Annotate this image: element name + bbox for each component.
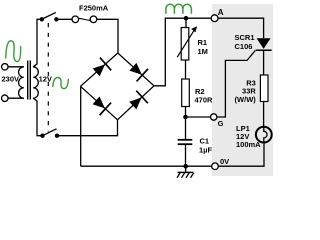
wire switch S1a to fuse: [56, 18, 72, 20]
wire secondary top riser: [33, 19, 40, 67]
svg-text:C1: C1: [200, 137, 210, 146]
switch S1a left contact: [40, 17, 44, 21]
svg-text:C106: C106: [235, 42, 253, 51]
fuse FS1 left cap: [72, 16, 79, 23]
bridge rectifier edge top-left: [81, 53, 118, 86]
capacitor C1 top plate: [178, 139, 193, 141]
svg-text:(W/W): (W/W): [235, 95, 257, 104]
svg-text:F250mA: F250mA: [79, 4, 109, 13]
wire switch S1b to bridge bottom vertex: [57, 120, 118, 136]
terminal: 230V neutral input: [2, 95, 9, 102]
label 100mA: [236, 140, 261, 149]
phase-control waveform symbol (green arches): [166, 4, 192, 14]
svg-text:12V: 12V: [39, 75, 52, 84]
svg-text:R1: R1: [198, 38, 208, 47]
switch S1a right contact: [54, 17, 58, 21]
wire R2 bottom to C1: [185, 107, 187, 140]
node G terminal circle: [211, 114, 217, 120]
svg-text:1µF: 1µF: [199, 146, 212, 155]
12V secondary sine symbol: [53, 77, 69, 88]
label (W/W): [235, 95, 257, 104]
svg-text:100mA: 100mA: [236, 140, 261, 149]
diode D1 (left to top): [91, 58, 112, 79]
bridge rectifier edge bottom-left: [81, 86, 118, 120]
label 33R: [242, 87, 256, 96]
gray panel (load section background): [212, 4, 273, 176]
label 12V: [39, 75, 52, 84]
lamp LP1 symbol: [256, 127, 272, 143]
switch link dashed line: [47, 23, 49, 132]
wire bridge positive output riser: [154, 18, 212, 86]
svg-text:G: G: [218, 119, 224, 128]
label SCR1: [235, 33, 255, 42]
svg-text:SCR1: SCR1: [235, 33, 255, 42]
wire R1 bottom to R2 top: [185, 60, 187, 79]
capacitor C1 bottom plate: [178, 143, 193, 145]
resistor R3 body: [260, 75, 268, 102]
label G: [218, 119, 224, 128]
transformer T1 core: [28, 61, 31, 100]
wire node G to SCR gate: [217, 51, 255, 117]
bridge rectifier edge bottom-right: [118, 86, 155, 120]
label F250mA: [79, 4, 109, 13]
resistor R2 body: [182, 79, 190, 107]
diode D2 (top to right): [127, 60, 148, 81]
junction R2/C1/gate node: [183, 115, 188, 120]
node A terminal circle: [211, 15, 218, 22]
label 230V: [2, 75, 20, 84]
wire fuse to bridge top vertex: [97, 19, 118, 53]
wire rail to R1 top: [185, 18, 187, 27]
switch S1b left contact: [40, 134, 44, 138]
fuse FS1 element: [78, 18, 90, 20]
wire junction to node G: [186, 116, 211, 118]
label 1uF: [199, 146, 212, 155]
label R2: [195, 87, 205, 96]
label R3: [246, 79, 256, 88]
transformer T1 primary winding: [19, 67, 24, 98]
label 470R: [195, 95, 214, 104]
diode D4 (bottom to right): [127, 91, 148, 112]
label 0V: [220, 157, 229, 166]
wire bridge negative output to 0V rail: [80, 86, 82, 166]
svg-text:0V: 0V: [220, 157, 229, 166]
svg-text:230V: 230V: [2, 75, 20, 84]
switch S1b blade: [43, 129, 57, 136]
resistor R1 body (variable 1M): [181, 28, 189, 61]
0V bottom rail wire: [81, 165, 212, 167]
label LP1: [236, 124, 250, 133]
wire secondary bottom riser: [33, 98, 41, 136]
fuse FS1 right cap: [90, 16, 97, 23]
svg-text:470R: 470R: [195, 95, 214, 104]
wire R3 to lamp LP1: [263, 102, 265, 127]
0V rail wire right of terminal: [218, 142, 264, 166]
switch S1b right contact: [55, 134, 59, 138]
junction positive rail / R1: [184, 16, 189, 21]
label A: [218, 8, 224, 17]
wire terminal to primary bottom: [8, 97, 24, 99]
node 0V terminal circle: [212, 163, 219, 170]
svg-text:1M: 1M: [198, 47, 208, 56]
bridge rectifier edge top-right: [118, 53, 154, 86]
wire terminal to primary top: [8, 66, 24, 68]
label 1M: [198, 47, 208, 56]
diode D3 (left to bottom): [90, 94, 111, 115]
label 12V (lamp): [236, 132, 249, 141]
AC supply sine symbol (230V input): [6, 41, 21, 62]
thyristor SCR1 anode-cathode symbol: [256, 38, 272, 50]
terminal: 230V live input: [2, 64, 9, 71]
switch S1a blade: [42, 12, 56, 19]
label R1: [198, 38, 208, 47]
ground symbol: [177, 166, 194, 178]
svg-text:A: A: [218, 8, 224, 17]
wire SCR cathode to R3: [263, 50, 265, 75]
junction 0V rail / ground: [183, 164, 188, 169]
resistor R1 wiper arrow: [177, 26, 197, 57]
label C106: [235, 42, 253, 51]
wire C1 to 0V rail: [185, 144, 187, 166]
transformer T1 secondary winding: [33, 67, 38, 98]
wire node A to SCR anode: [218, 18, 264, 38]
label C1: [200, 137, 210, 146]
